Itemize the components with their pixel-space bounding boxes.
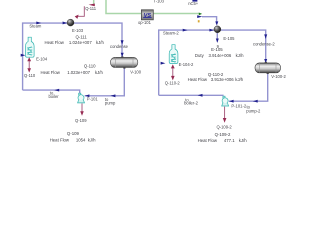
svg-text:E-103: E-103 xyxy=(72,28,84,33)
svg-text:Q-111: Q-111 xyxy=(75,35,87,40)
svg-text:Duty: Duty xyxy=(195,53,205,58)
svg-text:3.913e+006: 3.913e+006 xyxy=(211,77,234,82)
wire maroon Q-111 to E-103 xyxy=(78,6,85,16)
table Q-110 row xyxy=(41,70,104,75)
svg-text:1.023e+007: 1.023e+007 xyxy=(67,70,90,75)
svg-text:Heat Flow: Heat Flow xyxy=(50,137,70,142)
green arrowhead at nC5+ xyxy=(199,13,202,16)
svg-text:Q-110-2: Q-110-2 xyxy=(165,80,181,85)
svg-text:kJ/h: kJ/h xyxy=(95,70,103,75)
arrow stream Steam-2 on line xyxy=(183,29,188,32)
svg-text:Q-111: Q-111 xyxy=(85,6,97,11)
svg-text:Heat Flow: Heat Flow xyxy=(41,70,61,75)
wire maroon Q-109-2 below pump-2 xyxy=(224,107,226,119)
svg-text:Q-109: Q-109 xyxy=(75,118,87,123)
svg-text:Heat Flow: Heat Flow xyxy=(45,40,65,45)
energy stream Q-110 icon arrow xyxy=(27,68,31,72)
svg-text:condense-2: condense-2 xyxy=(253,42,275,47)
arrow entry into E-104 xyxy=(21,54,26,57)
wire nC5+ feed line into E-105 top xyxy=(202,17,217,24)
pump P-101 xyxy=(78,93,85,103)
svg-text:Q-110: Q-110 xyxy=(24,73,36,78)
table Q-110-2 row xyxy=(188,77,244,82)
svg-text:Steam-2: Steam-2 xyxy=(163,31,179,36)
table Q-109 row xyxy=(50,137,96,142)
wire bottom line to pump-2 xyxy=(159,94,224,96)
svg-text:Heat Flow: Heat Flow xyxy=(198,138,218,143)
logical op VS box op-101 xyxy=(141,10,153,20)
svg-text:nC5+: nC5+ xyxy=(188,1,199,6)
svg-text:T-103: T-103 xyxy=(153,0,164,4)
svg-text:V-100: V-100 xyxy=(130,70,142,75)
wire stream 9 out of E-105 bottom xyxy=(216,33,218,42)
svg-text:op-101: op-101 xyxy=(138,20,152,25)
svg-text:Q-109: Q-109 xyxy=(67,131,80,136)
arrow to-boiler-2 mid xyxy=(198,94,203,97)
wire right loop rectangle (steam-2 / to boiler-2) xyxy=(159,30,266,95)
svg-text:boiler: boiler xyxy=(49,94,60,99)
arrowhead maroon at E-103 xyxy=(75,15,79,19)
arrow entry into E-105 top xyxy=(215,21,218,25)
arrow stream nC5+ icon xyxy=(197,15,202,18)
energy stream Q-110-2 icon arrow xyxy=(171,76,175,81)
table Q-111 row xyxy=(45,40,105,45)
arrowhead maroon into E-104-2 xyxy=(171,64,175,68)
svg-text:P-101: P-101 xyxy=(87,96,99,101)
energy stream Q-109 icon arrow xyxy=(80,111,84,116)
wire green stub into Q-111 xyxy=(93,0,95,4)
arrow stream 9 head xyxy=(216,39,219,43)
svg-text:Q-109-2: Q-109-2 xyxy=(215,132,231,137)
arrow entry into E-104-2 xyxy=(161,62,166,65)
arrow entry into E-103 xyxy=(63,22,68,25)
svg-text:pump: pump xyxy=(105,101,116,106)
svg-text:Heat Flow: Heat Flow xyxy=(188,77,208,82)
svg-text:kJ/h: kJ/h xyxy=(96,40,104,45)
table E-105 row xyxy=(195,53,244,58)
wire pump P-101 outlet to boiler xyxy=(23,90,80,93)
svg-text:1054: 1054 xyxy=(76,137,86,142)
energy stream Q-109-2 icon arrow xyxy=(223,118,227,123)
arrow stream top cut nC5+ source xyxy=(192,0,197,2)
svg-text:P-101-2: P-101-2 xyxy=(231,104,246,109)
svg-text:Q-109-2: Q-109-2 xyxy=(217,124,233,129)
svg-text:kJ/h: kJ/h xyxy=(235,77,243,82)
arrow to-boiler mid xyxy=(54,89,59,92)
svg-text:V-100-2: V-100-2 xyxy=(271,74,286,79)
svg-text:kJ/h: kJ/h xyxy=(236,53,244,58)
energy stream Q-111 icon arrow xyxy=(89,4,95,7)
wire left loop rectangle (steam / to boiler) xyxy=(23,23,122,90)
boiler E-104 bottle xyxy=(26,37,35,57)
arrow entry into E-105 xyxy=(209,29,214,32)
svg-text:Steam: Steam xyxy=(29,24,42,29)
warning marker yellow below nC5+ xyxy=(198,20,200,22)
arrow condense-2 mid xyxy=(264,34,267,39)
arrowhead maroon into E-104 xyxy=(27,57,31,61)
wire green logical line from top to nC5+ xyxy=(106,0,199,14)
arrow to-pump-2 mid xyxy=(253,100,258,103)
arrow entry into pump-2 xyxy=(229,100,234,103)
svg-text:condense: condense xyxy=(110,44,129,49)
vessel V-100 drum xyxy=(111,56,138,68)
svg-text:477.1: 477.1 xyxy=(224,138,235,143)
svg-text:boiler-2: boiler-2 xyxy=(184,101,199,106)
svg-text:E-105: E-105 xyxy=(211,47,223,52)
arrow to-pump mid xyxy=(111,94,116,97)
arrow condense mid xyxy=(121,40,124,45)
svg-text:1.024e+007: 1.024e+007 xyxy=(69,40,92,45)
svg-text:E-104: E-104 xyxy=(36,56,48,61)
wire V-100-2 bottom to pump-2 xyxy=(229,73,268,101)
heat exchanger E-103 sphere xyxy=(67,19,74,26)
arrow stream Steam on line xyxy=(36,22,41,25)
pump P-101-2 xyxy=(222,96,229,106)
svg-text:E-105: E-105 xyxy=(223,36,235,41)
heat exchanger E-105 sphere xyxy=(214,26,221,33)
svg-text:3.914e+006: 3.914e+006 xyxy=(209,53,232,58)
wire maroon Q-109 below pump xyxy=(81,103,83,111)
boiler E-104-2 bottle xyxy=(169,45,178,64)
svg-text:kJ/h: kJ/h xyxy=(239,138,247,143)
svg-text:Q-110: Q-110 xyxy=(84,64,96,69)
table Q-109-2 row xyxy=(198,138,248,143)
svg-text:kJ/h: kJ/h xyxy=(88,137,96,142)
arrow entry into V-100 xyxy=(121,53,124,57)
wire maroon Q-110-2 to E-104-2 xyxy=(172,67,174,77)
svg-text:E-104-2: E-104-2 xyxy=(179,62,194,67)
vessel V-100-2 drum xyxy=(255,62,281,74)
wire maroon Q-110 to E-104 xyxy=(28,60,30,70)
arrow entry into V-100-2 xyxy=(264,59,267,63)
arrow entry into pump P-101 xyxy=(85,94,90,97)
wire V-100 bottom to pump P-101 xyxy=(85,68,125,96)
svg-text:pump-2: pump-2 xyxy=(246,109,261,114)
